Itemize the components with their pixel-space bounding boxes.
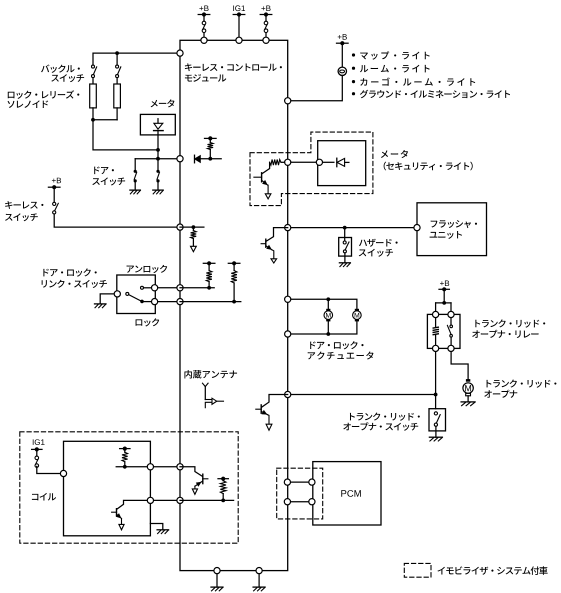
wire lock internal: [180, 301, 241, 303]
wire actuator lower: [291, 321, 357, 334]
transistor in coil unit: [112, 511, 117, 513]
wire unlock to module: [158, 287, 180, 289]
pin unlock output: [152, 285, 158, 291]
wire PCM 2: [291, 501, 309, 503]
transistor trunk drive: [262, 395, 288, 408]
label buckle switch: [41, 65, 80, 73]
transistor security: [262, 162, 270, 174]
door lock link switch box: [117, 275, 156, 314]
node +B lights: [338, 34, 347, 40]
pin module ground 2: [256, 568, 262, 574]
ground module 1: [211, 586, 223, 588]
lock release solenoid 1: [90, 84, 97, 108]
wire actuator upper: [291, 299, 357, 309]
pin link switch common: [114, 291, 120, 297]
pin module coil upper: [177, 464, 183, 470]
wire breaker to module pin: [291, 75, 342, 100]
wire relay contact to motor: [451, 352, 468, 379]
wire relay coil to trunk switch: [435, 352, 437, 409]
label trunk lid opener switch: [350, 413, 420, 421]
wire coil upper to module: [154, 466, 180, 468]
label built-in antenna: [184, 370, 237, 379]
pull-up resistor in coil unit: [120, 448, 130, 450]
pin door switch input: [177, 156, 183, 162]
diode meter security: [323, 161, 334, 163]
coil unit box: [64, 441, 151, 536]
pull-down resistor keyless: [192, 227, 194, 230]
label door switch: [94, 167, 114, 175]
wire security to meter: [291, 161, 319, 163]
wire coil lower to module: [154, 499, 180, 501]
node +B keyless: [52, 178, 61, 184]
dashed box immobilizer PCM: [277, 468, 323, 519]
pull-up resistor module coil: [218, 478, 228, 480]
resistor security collector: [281, 161, 285, 163]
legend dashed box: [404, 563, 431, 577]
bullet map light: [352, 53, 355, 56]
trunk lid opener switch box: [429, 409, 446, 431]
node +B trunk relay: [440, 280, 449, 286]
label flasher unit: [431, 220, 477, 228]
actuator motor 1: [327, 299, 329, 309]
wire buckle feed: [93, 53, 180, 65]
ground module 2: [253, 586, 265, 588]
node +B feed 2: [261, 5, 270, 11]
label lock release solenoid: [8, 90, 80, 99]
wire module coil lower internal: [180, 499, 234, 501]
pin +B feed 2: [263, 37, 269, 43]
keyless switch: [53, 187, 55, 202]
pin trunk output: [285, 391, 291, 397]
pin lights output: [285, 98, 291, 104]
circuit breaker lights: [338, 67, 346, 75]
hazard switch: [344, 228, 346, 241]
door switch 2: [157, 159, 159, 171]
bullet cargo room light: [352, 80, 355, 83]
wire unlock internal: [180, 287, 214, 289]
label unlock: [127, 265, 168, 273]
wire meter to door wire: [157, 131, 159, 159]
trunk opener motor: [466, 379, 470, 382]
label PCM: [341, 490, 361, 497]
ground hazard switch: [339, 262, 350, 264]
pull-up resistor lock: [228, 262, 240, 264]
wire solenoid to meter node: [93, 120, 158, 150]
wire lock to module: [158, 301, 180, 303]
wire IG1 to coil unit: [37, 467, 60, 474]
diode in meter: [157, 119, 159, 124]
buckle switch 2: [116, 65, 119, 68]
wire +B to relay: [443, 289, 445, 303]
pin flasher output: [285, 225, 291, 231]
ground door switch 1: [130, 189, 141, 191]
pin coil unit upper output: [147, 464, 153, 470]
fuse on +B feed 1: [203, 15, 205, 22]
pull-up resistor unlock: [203, 262, 215, 264]
node IG1 coil: [33, 439, 45, 445]
pin PCM wire1 left: [284, 479, 290, 485]
bullet room light: [352, 67, 355, 70]
wire +B to breaker: [341, 43, 343, 67]
ground coil unit: [150, 524, 162, 530]
ground trunk switch: [429, 436, 442, 438]
pin relay bottom right: [448, 345, 454, 351]
node +B feed 1: [199, 5, 208, 11]
node IG1 feed: [233, 5, 245, 11]
flasher unit box: [417, 203, 487, 256]
bullet ground illumination light: [352, 92, 355, 95]
diode door input: [194, 155, 196, 163]
PCM box: [313, 462, 381, 525]
pin +B feed 1: [201, 37, 207, 43]
lock contact blade: [126, 292, 129, 295]
pin relay top left: [433, 311, 439, 317]
fuse IG1 coil: [36, 449, 38, 456]
pin module coil lower: [177, 497, 183, 503]
pin actuator upper: [285, 296, 291, 302]
junction door pullup: [208, 157, 212, 161]
pin PCM wire2 right: [309, 499, 315, 505]
pin buckle feed: [177, 50, 183, 56]
wire solenoid junction: [93, 119, 117, 121]
pull-up resistor door input: [205, 137, 217, 139]
legend label immobilizer system: [438, 566, 548, 575]
wire flasher: [291, 227, 414, 229]
relay contact: [450, 318, 452, 325]
pin relay bottom left: [433, 345, 439, 351]
pin flasher unit input: [414, 225, 420, 231]
pin actuator lower: [285, 331, 291, 337]
pin unlock input: [177, 285, 183, 291]
transistor flasher drive: [266, 228, 288, 242]
wire keyless internal: [180, 226, 204, 228]
pin relay top right: [448, 311, 454, 317]
pin IG1 feed: [236, 37, 242, 43]
lock release solenoid 2: [114, 84, 121, 108]
wire PCM 1: [291, 481, 309, 483]
relay coil: [435, 318, 437, 327]
meter security box: [318, 141, 366, 186]
label trunk lid opener relay: [475, 319, 545, 327]
label meter security light: [381, 150, 408, 158]
pin keyless input: [177, 224, 183, 230]
wire link switch common to ground: [100, 294, 114, 304]
transistor module coil input: [180, 467, 203, 477]
wire coil unit upper: [116, 466, 150, 468]
label keyless switch: [5, 201, 43, 209]
pin module ground 1: [214, 568, 220, 574]
label lock: [136, 318, 160, 326]
label trunk lid opener: [487, 380, 557, 388]
pin meter security input: [316, 159, 322, 165]
trunk lid opener relay box: [427, 314, 460, 348]
unlock contact: [141, 286, 144, 289]
pin coil unit input: [60, 470, 66, 476]
ground trunk motor: [461, 401, 475, 403]
pin security output: [285, 159, 291, 165]
junction buckle branch: [115, 51, 119, 55]
dashed outline immobilizer security: [250, 132, 373, 206]
buckle switch 1: [92, 65, 95, 68]
keyless control module box: [180, 40, 288, 570]
label meter: [151, 99, 175, 107]
pin lock output: [152, 299, 158, 305]
label keyless control module: [185, 63, 282, 71]
pin lock input: [177, 299, 183, 305]
actuator motor 2: [355, 309, 359, 311]
label coil: [32, 493, 56, 501]
pin PCM wire1 right: [309, 479, 315, 485]
door switch 1: [134, 159, 136, 171]
wire trunk output: [291, 394, 436, 396]
wire IG1 feed: [238, 15, 240, 38]
pin PCM wire2 left: [284, 499, 290, 505]
meter box: [140, 114, 175, 134]
fuse on +B feed 2: [265, 15, 267, 22]
built-in antenna symbol: [203, 383, 206, 386]
ground link switch: [95, 303, 107, 305]
pin coil unit lower output: [147, 497, 153, 503]
label door lock actuator: [310, 341, 363, 349]
dashed box immobilizer coil: [20, 432, 238, 543]
ground door switch 2: [153, 189, 163, 191]
wire keyless switch to module: [54, 214, 180, 227]
wire door switch bus: [135, 158, 180, 160]
label door lock link switch: [43, 268, 96, 276]
